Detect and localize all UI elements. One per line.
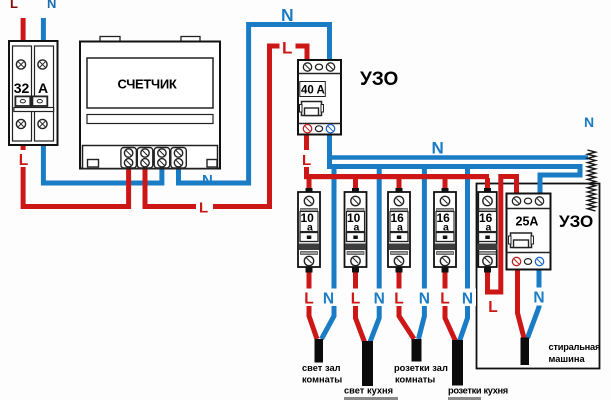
svg-text:розетки зал: розетки зал [394, 363, 448, 373]
svg-text:а: а [354, 222, 360, 234]
svg-text:L: L [282, 39, 292, 58]
svg-text:стиральная: стиральная [549, 342, 601, 352]
svg-text:L: L [10, 0, 18, 11]
svg-text:L: L [304, 291, 313, 308]
svg-text:N: N [281, 5, 294, 25]
svg-text:40 A: 40 A [301, 85, 325, 97]
svg-text:комнаты: комнаты [395, 375, 435, 385]
svg-text:комнаты: комнаты [302, 375, 342, 385]
svg-text:N: N [432, 139, 444, 158]
svg-text:УЗО: УЗО [559, 212, 593, 231]
svg-text:N: N [584, 114, 594, 130]
svg-text:свет зал: свет зал [302, 363, 341, 373]
svg-text:25A: 25A [516, 215, 539, 229]
svg-text:L: L [199, 200, 208, 217]
svg-text:N: N [47, 0, 56, 11]
svg-text:N: N [419, 291, 430, 308]
svg-text:L: L [351, 291, 360, 308]
svg-text:L: L [394, 291, 403, 308]
svg-text:32: 32 [14, 80, 30, 96]
svg-text:L: L [488, 299, 497, 316]
svg-text:а: а [486, 222, 492, 234]
svg-text:L: L [19, 152, 28, 169]
svg-text:УЗО: УЗО [360, 69, 398, 90]
svg-text:розетки кухня: розетки кухня [448, 386, 508, 396]
svg-text:машина: машина [549, 354, 586, 364]
svg-text:а: а [397, 222, 403, 234]
svg-text:A: A [38, 80, 48, 96]
svg-text:а: а [443, 222, 449, 234]
svg-text:N: N [323, 291, 334, 308]
svg-text:СЧЕТЧИК: СЧЕТЧИК [117, 77, 176, 92]
svg-text:N: N [202, 172, 213, 189]
svg-text:N: N [533, 290, 544, 307]
svg-text:L: L [302, 152, 311, 169]
svg-text:L: L [440, 291, 449, 308]
svg-text:N: N [462, 291, 473, 308]
svg-text:а: а [307, 222, 313, 234]
svg-text:свет кухня: свет кухня [344, 386, 393, 396]
svg-text:N: N [374, 291, 385, 308]
